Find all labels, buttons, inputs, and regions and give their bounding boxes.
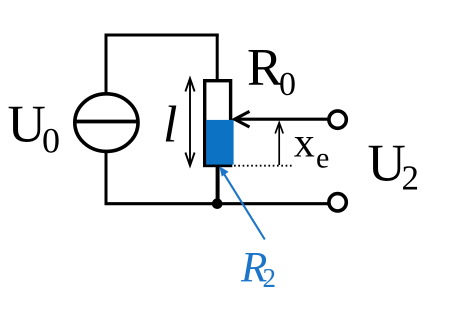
svg-text:U: U: [8, 96, 46, 154]
terminal bottom (output): [329, 194, 346, 211]
junction node (dot): [212, 198, 223, 209]
wire: stub below resistor to bottom rail: [216, 165, 220, 204]
svg-text:U: U: [368, 135, 406, 193]
wire: top horizontal rail: [105, 34, 219, 37]
wiper arrow into R0: [235, 111, 328, 127]
svg-text:2: 2: [402, 158, 420, 197]
svg-text:l: l: [163, 96, 177, 153]
svg-text:R: R: [247, 39, 283, 97]
svg-text:x: x: [294, 121, 315, 167]
wire: top-left vertical from source to top rail: [105, 35, 108, 93]
dimension arrow l (double headed): [185, 78, 194, 165]
resistor R2 portion (blue fill): [206, 120, 233, 165]
dimension arrow x_e (vertical, pointing up): [275, 123, 283, 165]
blue pointer arrow to R2: [219, 166, 264, 239]
wire: bottom horizontal rail: [105, 202, 329, 205]
dotted reference line: [234, 165, 293, 167]
svg-text:0: 0: [279, 66, 296, 103]
wire: top-right vertical down to resistor R0: [216, 34, 219, 82]
resistor R0 body: [205, 81, 231, 166]
source U0 (circle with horizontal bar): [75, 94, 138, 152]
wire: bottom-left vertical from source to bottom rail: [105, 151, 108, 205]
svg-text:2: 2: [263, 263, 277, 293]
svg-text:0: 0: [42, 121, 60, 161]
terminal top (output): [329, 111, 346, 128]
svg-text:e: e: [316, 141, 329, 174]
